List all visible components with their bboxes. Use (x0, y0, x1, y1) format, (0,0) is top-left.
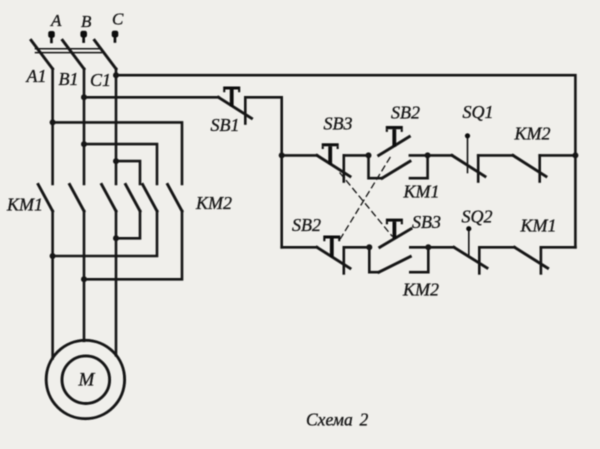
node jog A (50, 253, 56, 259)
switch QS tie bar (36, 49, 102, 53)
mechanical link SB2 dashed (341, 158, 391, 239)
svg-text:M: M (78, 370, 96, 391)
svg-text:SB1: SB1 (211, 115, 240, 135)
svg-text:KM1: KM1 (520, 216, 557, 236)
switch QS blade pole C (95, 40, 117, 69)
svg-text:SQ1: SQ1 (463, 102, 494, 122)
svg-text:Схема: Схема (306, 410, 353, 430)
wire tap B1 to KM2 pole 2 (84, 144, 157, 184)
svg-text:2: 2 (360, 410, 369, 430)
phase input arrow A (48, 31, 55, 43)
limit switch SQ2 (NC) (454, 226, 487, 273)
wire SB3 right to node (410, 246, 428, 249)
node upper combo left (366, 152, 372, 158)
wire KM2 pole1 bottom to C column (116, 211, 140, 238)
svg-text:A1: A1 (26, 66, 47, 86)
svg-text:SQ2: SQ2 (462, 207, 493, 227)
contactor KM2 main contact 2 (143, 185, 157, 212)
pushbutton SB2 upper (NO) (379, 126, 410, 155)
svg-text:KM1: KM1 (403, 182, 440, 202)
svg-text:SB3: SB3 (324, 114, 353, 134)
svg-text:A: A (50, 11, 62, 30)
contactor KM1 main contact 1 (38, 185, 52, 212)
wire KM2 pole2 bottom to A column (53, 211, 157, 256)
node C1 / top rail junction (113, 72, 119, 78)
wire motor phase A column (51, 211, 54, 359)
contact KM2 aux NO (hold-in) (369, 247, 428, 272)
node jog C (113, 235, 119, 241)
wire node to SQ1 (428, 154, 452, 157)
wire top rail (116, 75, 575, 247)
contact KM2 aux NC (interlock) (513, 155, 546, 181)
wire SQ1 to KM2 contact (478, 154, 513, 157)
pushbutton SB2 lower (NC) (317, 236, 350, 274)
wire SB2 to node (344, 246, 370, 249)
wire upper branch start (282, 154, 317, 157)
contactor KM1 main contact 3 (102, 185, 116, 212)
node lower combo left (366, 244, 372, 250)
pushbutton SB1 (NC stop) (219, 87, 252, 124)
switch QS blade pole B (63, 40, 85, 69)
wire SB3 to node (344, 154, 369, 157)
wire KM1 contact to right rail (541, 246, 576, 249)
phase input arrow C (112, 31, 119, 43)
svg-text:SB3: SB3 (412, 212, 441, 232)
motor M outer circle (46, 340, 124, 418)
wire motor phase B column (83, 211, 86, 341)
node tap C1 (113, 158, 119, 164)
svg-text:KM2: KM2 (514, 124, 551, 144)
wire SB2 right to node (410, 154, 428, 157)
pushbutton SB3 lower (NO) (380, 219, 411, 248)
svg-text:KM1: KM1 (6, 195, 43, 215)
contactor KM2 main contact 1 (126, 185, 140, 212)
contact KM1 aux NO (hold-in) (369, 155, 428, 178)
svg-text:SB2: SB2 (391, 103, 420, 123)
wire KM2 contact to right rail (540, 154, 576, 157)
node left rail / upper branch (279, 152, 285, 158)
mechanical link SB3 dashed (340, 173, 392, 236)
motor M inner circle (62, 356, 110, 404)
contact KM1 aux NC (interlock) (515, 247, 548, 273)
node tap B1 (81, 141, 87, 147)
node B1 / control tap (81, 94, 87, 100)
wire tap C1 to KM2 pole 1 (116, 161, 140, 184)
svg-text:KM2: KM2 (402, 280, 439, 300)
svg-text:C: C (112, 10, 124, 29)
svg-text:KM2: KM2 (195, 193, 232, 213)
wire tap A1 to KM2 pole 3 (53, 122, 182, 184)
svg-text:C1: C1 (90, 70, 111, 90)
node lower combo right (425, 244, 431, 250)
limit switch SQ1 (NC) (452, 133, 485, 181)
phase input arrow B (80, 31, 87, 43)
svg-text:B: B (81, 12, 92, 31)
svg-text:B1: B1 (59, 69, 79, 89)
wire KM2 pole3 bottom to B column (84, 211, 182, 279)
pushbutton SB3 upper (NC) (317, 143, 350, 181)
wire lower branch start (282, 246, 317, 249)
switch QS blade pole A (31, 40, 52, 69)
node upper combo right (425, 152, 431, 158)
wire SQ2 to KM1 contact (479, 246, 514, 249)
node right rail / upper branch (572, 152, 578, 158)
wire column C1 upper (115, 69, 118, 184)
wire SB1 to left rail (245, 97, 281, 247)
contactor KM2 main contact 3 (168, 185, 182, 212)
node tap A1 (50, 119, 56, 125)
wire B1 to SB1 (84, 96, 219, 99)
contactor KM1 main contact 2 (70, 185, 84, 212)
wire motor phase C column (115, 211, 118, 355)
wire column A1 upper (51, 69, 54, 184)
node jog B (81, 276, 87, 282)
svg-text:SB2: SB2 (292, 215, 321, 235)
wire column B1 upper (83, 69, 86, 184)
wire node to SQ2 (428, 246, 454, 249)
